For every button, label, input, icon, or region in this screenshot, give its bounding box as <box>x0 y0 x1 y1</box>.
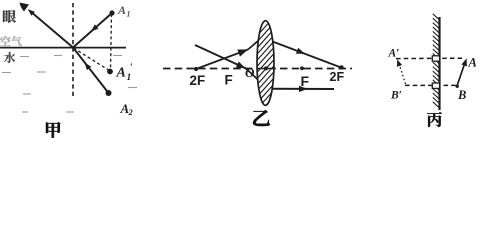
axis through lens <box>257 68 276 70</box>
mirror surface <box>438 17 440 110</box>
label bing (diagram 3) <box>427 112 442 127</box>
dashed image line O-A1' <box>74 48 109 70</box>
ray from A2 <box>73 48 109 94</box>
dashed line A'-A <box>396 57 463 59</box>
perpendicular square bottom <box>432 83 439 88</box>
point F right <box>300 66 304 70</box>
principal axis (dashed) <box>163 68 352 70</box>
point A1 <box>109 10 114 15</box>
water ripple marks <box>20 56 29 58</box>
svg-text:A: A <box>117 3 126 17</box>
dashed vertical from A1 <box>111 14 112 70</box>
normal (dashed) <box>72 3 74 99</box>
svg-text:A: A <box>116 66 126 81</box>
point A1' <box>107 69 113 75</box>
svg-text:′: ′ <box>130 63 133 74</box>
incident ray through 2F <box>196 50 248 70</box>
label yan (eye) <box>3 10 16 23</box>
refracted ray to 2F <box>262 38 341 68</box>
point 2F right <box>339 65 343 69</box>
mirror hatching <box>433 14 440 20</box>
refracted ray to eye <box>30 11 73 48</box>
label jia (diagram 1) <box>46 122 60 138</box>
label yi (diagram 2) <box>253 110 270 126</box>
perpendicular square top <box>432 56 439 61</box>
incident ray from A1 <box>73 13 112 48</box>
svg-text:1: 1 <box>127 10 131 19</box>
svg-text:B′: B′ <box>390 90 402 102</box>
image arrow B'-A' (dotted) <box>399 62 406 84</box>
svg-text:2F: 2F <box>190 73 206 88</box>
object arrow B-A <box>457 61 466 86</box>
optical centre O dot <box>264 66 268 70</box>
svg-text:A′: A′ <box>388 48 400 60</box>
svg-text:A: A <box>468 56 477 70</box>
point A2 <box>106 90 112 96</box>
svg-text:F: F <box>225 73 233 88</box>
water surface <box>0 47 126 49</box>
label kongqi (air) <box>0 36 11 46</box>
point 2F left <box>194 67 198 71</box>
svg-text:O: O <box>245 65 255 80</box>
incident ray through F <box>195 45 246 69</box>
refracted ray parallel <box>271 88 334 90</box>
svg-text:1: 1 <box>127 73 132 83</box>
svg-text:B: B <box>457 88 466 102</box>
svg-text:F: F <box>301 73 310 89</box>
svg-text:2: 2 <box>128 107 134 117</box>
eye symbol <box>20 3 30 12</box>
svg-text:2F: 2F <box>330 70 345 84</box>
dashed line B'-B <box>405 84 456 86</box>
label shui (water) <box>4 52 15 63</box>
